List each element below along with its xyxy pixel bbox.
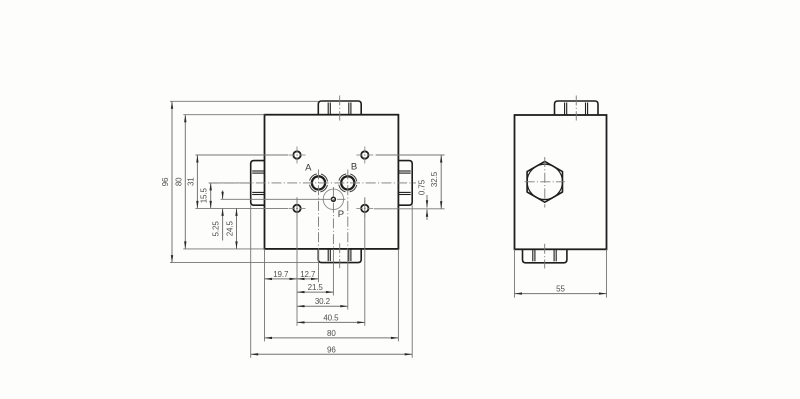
extension block bottom edge xyxy=(183,248,264,250)
dimension 96 bottom xyxy=(251,353,413,355)
svg-text:40.5: 40.5 xyxy=(323,313,339,322)
port A xyxy=(312,176,325,189)
extension bottom-left hole down xyxy=(296,197,298,325)
dimension 19.7 bottom xyxy=(265,278,298,280)
dimension 21.5 bottom xyxy=(297,291,333,293)
svg-text:30.2: 30.2 xyxy=(315,297,331,306)
extension top holes row right xyxy=(376,154,445,156)
svg-text:0.75: 0.75 xyxy=(417,179,426,195)
svg-text:12.7: 12.7 xyxy=(300,270,316,279)
extension A-B row left xyxy=(209,182,251,184)
dimension 0.75 vertical right xyxy=(426,195,428,208)
dimension 24.5 vertical left xyxy=(236,208,238,249)
centerline port P horizontal xyxy=(322,198,346,200)
extension block top edge xyxy=(183,114,264,116)
hex plug top (side view) xyxy=(555,101,599,115)
extension side block left down xyxy=(514,249,516,297)
svg-text:21.5: 21.5 xyxy=(308,283,324,292)
centerline hex vertical xyxy=(544,157,546,208)
centerline A-B row horizontal xyxy=(209,182,416,184)
svg-text:P: P xyxy=(338,209,344,220)
svg-text:15.5: 15.5 xyxy=(200,187,209,203)
extension top of top plug xyxy=(170,100,318,102)
svg-text:31: 31 xyxy=(186,177,195,186)
mounting hole top-right xyxy=(361,151,368,158)
dimension 30.2 bottom xyxy=(297,305,348,307)
dimension 55 bottom side view xyxy=(515,293,607,295)
extension bottom holes row right xyxy=(374,208,445,210)
centerline bottom plug xyxy=(339,243,341,268)
mounting hole bottom-left xyxy=(293,205,300,212)
extension bottom-right hole down xyxy=(364,197,366,325)
svg-text:96: 96 xyxy=(327,345,336,354)
svg-text:55: 55 xyxy=(556,285,565,294)
hex plug top (front view) xyxy=(318,101,361,115)
mounting hole top-left xyxy=(293,151,300,158)
svg-text:80: 80 xyxy=(174,177,183,186)
extension side block right down xyxy=(606,249,608,297)
dimension 96 vertical left xyxy=(171,101,173,262)
extension left plug down xyxy=(250,205,252,358)
extension port P down xyxy=(332,249,334,296)
centerline top plug side view xyxy=(575,96,577,121)
side view valve block body xyxy=(515,115,607,249)
centerline hex horizontal xyxy=(525,181,565,183)
extension block right edge down xyxy=(397,249,399,342)
svg-text:19.7: 19.7 xyxy=(273,270,289,279)
extension P row left xyxy=(221,198,322,200)
extension bottom holes row left xyxy=(195,207,288,209)
dimension 80 vertical left xyxy=(184,115,186,249)
extension port B down xyxy=(347,249,349,310)
hex plug bottom (side view) xyxy=(523,249,567,262)
svg-text:B: B xyxy=(351,162,357,173)
dimension 32.5 vertical right xyxy=(440,155,442,209)
extension right plug down xyxy=(411,205,413,358)
dimension 80 bottom xyxy=(265,337,399,339)
centerline port B vertical xyxy=(347,170,349,249)
extension bottom of bottom plug xyxy=(170,262,318,264)
front view valve block body xyxy=(265,115,399,249)
dimension 40.5 bottom xyxy=(297,321,365,323)
centerline port A vertical xyxy=(318,170,320,249)
dimension 12.7 bottom xyxy=(297,278,319,280)
svg-text:5.25: 5.25 xyxy=(212,221,221,237)
dimension 31 vertical left xyxy=(196,155,198,208)
extension top holes row left xyxy=(195,154,288,156)
centerline top plug xyxy=(339,96,341,121)
centerline bottom plug side view xyxy=(544,244,546,269)
svg-text:32.5: 32.5 xyxy=(430,171,439,187)
hex plug bottom (front view) xyxy=(318,249,361,263)
svg-text:A: A xyxy=(305,162,312,173)
mounting hole bottom-right xyxy=(361,205,368,212)
hex plug left (front view) xyxy=(251,161,265,206)
extension port A down xyxy=(318,249,320,282)
port P pilot xyxy=(331,197,335,201)
svg-text:24.5: 24.5 xyxy=(226,220,235,236)
dimension 5.25 vertical left xyxy=(222,190,224,199)
hex plug right (front view) xyxy=(398,161,412,206)
extension block left edge down xyxy=(264,249,266,342)
port B xyxy=(341,176,354,189)
centerline port P vertical xyxy=(332,187,334,249)
svg-text:96: 96 xyxy=(161,177,170,186)
svg-text:80: 80 xyxy=(327,329,336,338)
hex plug face (side view) xyxy=(527,161,562,202)
dimension 15.5 vertical left xyxy=(210,183,212,209)
